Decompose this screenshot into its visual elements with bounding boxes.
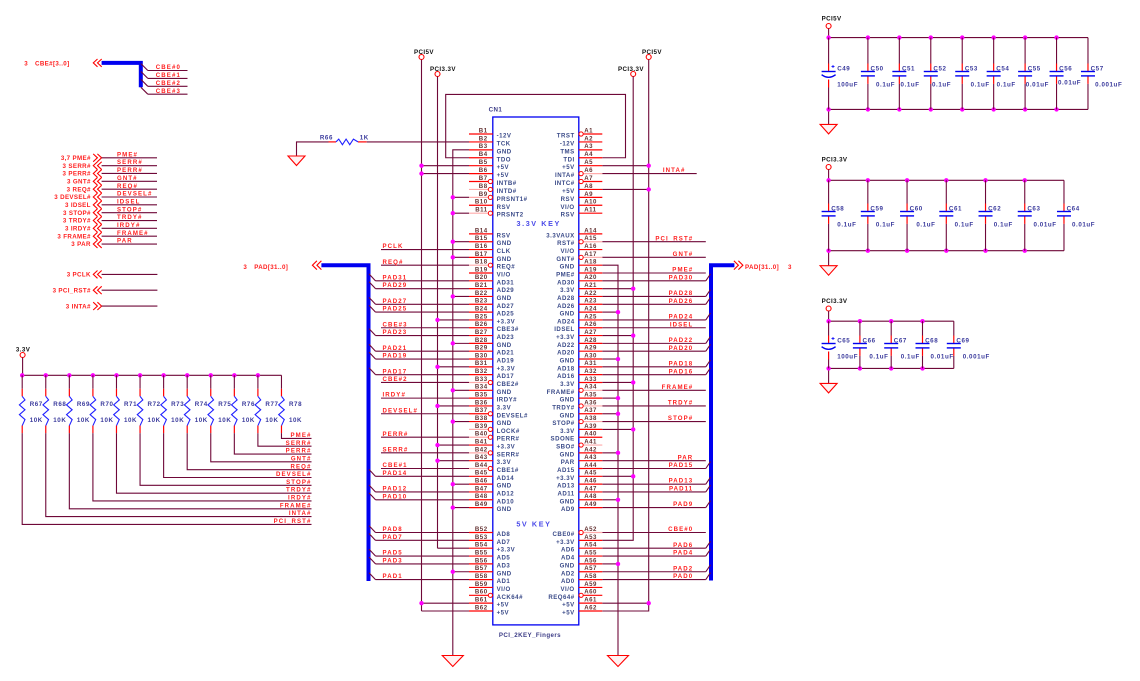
wire PCI_RST# [602, 241, 706, 243]
pin B42 SERR# [469, 446, 520, 458]
svg-text:PAD5: PAD5 [383, 550, 403, 557]
pin B26 CBE3# [469, 321, 519, 333]
svg-text:10K: 10K [242, 417, 255, 424]
svg-text:CBE#3: CBE#3 [156, 88, 181, 95]
pin B17 GND [469, 251, 512, 263]
wire FRAME# [102, 235, 157, 237]
svg-text:A19: A19 [584, 266, 597, 273]
junction A39 3.3V [631, 427, 635, 431]
svg-text:R69: R69 [77, 401, 90, 408]
svg-text:A9: A9 [584, 191, 593, 198]
bus entry PAD2 [706, 565, 711, 572]
svg-text:+3.3V: +3.3V [556, 539, 575, 546]
svg-text:B61: B61 [475, 597, 488, 604]
svg-text:SERR#: SERR# [286, 440, 312, 447]
resistor R74 10K [184, 373, 207, 433]
junction A5 +5V [647, 163, 651, 167]
ground (PCI3.3V bank) [820, 266, 837, 276]
svg-text:A33: A33 [584, 376, 597, 383]
pin B31 +3.3V [469, 360, 516, 372]
junction A48 GND [616, 498, 620, 502]
svg-text:PAD[31..0]: PAD[31..0] [745, 264, 779, 271]
svg-text:100uF: 100uF [837, 354, 858, 361]
pin B57 GND [469, 565, 512, 577]
svg-text:PCLK: PCLK [383, 243, 404, 250]
svg-text:GND: GND [497, 295, 512, 302]
svg-text:TDO: TDO [497, 156, 511, 163]
wire STOP# [602, 421, 706, 423]
svg-text:R68: R68 [53, 401, 66, 408]
svg-text:0.01uF: 0.01uF [1072, 222, 1095, 229]
pin B15 GND [469, 235, 512, 247]
svg-text:PAD21: PAD21 [383, 345, 408, 352]
pin A15 RST# [557, 235, 602, 247]
svg-text:B22: B22 [475, 290, 488, 297]
wire PAD22 [602, 342, 706, 344]
svg-text:VI/O: VI/O [497, 272, 511, 279]
svg-text:AD1: AD1 [497, 578, 511, 585]
pin A36 TRDY# [552, 399, 602, 411]
svg-text:B44: B44 [475, 462, 488, 469]
svg-text:PAD10: PAD10 [383, 493, 408, 500]
wire +5V left rail [421, 60, 423, 611]
svg-text:GND: GND [497, 570, 512, 577]
svg-text:R78: R78 [289, 401, 302, 408]
svg-text:3 INTA#: 3 INTA# [66, 303, 91, 310]
svg-text:SERR#: SERR# [383, 446, 409, 453]
pin B41 +3.3V [469, 438, 516, 450]
svg-text:A44: A44 [584, 462, 597, 469]
svg-text:PAR: PAR [678, 454, 694, 461]
svg-text:PAD25: PAD25 [383, 306, 408, 313]
svg-text:A26: A26 [584, 321, 597, 328]
svg-text:IRDY#: IRDY# [117, 222, 140, 229]
svg-text:PAD24: PAD24 [669, 314, 694, 321]
svg-text:C54: C54 [996, 66, 1009, 73]
ground (bottom right of connector) [608, 656, 629, 667]
pin A45 +3.3V [556, 470, 602, 482]
junction A56 GND [616, 562, 620, 566]
pin B62 +5V [469, 604, 510, 616]
wire PAD7 [376, 539, 470, 541]
svg-text:B14: B14 [475, 227, 488, 234]
svg-text:AD8: AD8 [497, 531, 511, 538]
wire A5 +5V [602, 165, 648, 167]
svg-text:3 FRAME#: 3 FRAME# [57, 233, 91, 240]
capacitor C53 0.1uF [955, 35, 990, 111]
pin B10 RSV [469, 199, 511, 211]
pin B2 TCK [469, 135, 511, 147]
capacitor C56 0.01uF [1050, 35, 1082, 111]
pin A6 INTA# [555, 167, 602, 179]
svg-text:IRDY#: IRDY# [383, 392, 406, 399]
pin B48 AD10 [469, 493, 514, 505]
bus entry PAD19 [369, 352, 376, 359]
wire FRAME# [602, 389, 706, 391]
svg-text:CBE2#: CBE2# [497, 381, 519, 388]
bus entry PAD27 [369, 297, 376, 304]
wire A56 GND [602, 563, 618, 565]
pin B36 3.3V [469, 399, 512, 411]
svg-text:C63: C63 [1027, 206, 1040, 213]
wire PAD17 [376, 374, 470, 376]
svg-text:GND: GND [560, 412, 575, 419]
svg-text:ACK64#: ACK64# [497, 594, 523, 601]
pin B47 AD12 [469, 485, 514, 497]
svg-text:A45: A45 [584, 470, 597, 477]
wire A48 GND [602, 499, 618, 501]
pin B14 RSV [469, 227, 511, 239]
wire REQ# [102, 188, 157, 190]
resistor R72 10K [137, 373, 160, 433]
svg-text:LOCK#: LOCK# [497, 428, 520, 435]
wire A37 GND [602, 413, 618, 415]
svg-text:B7: B7 [479, 175, 488, 182]
svg-text:AD5: AD5 [497, 555, 511, 562]
pin B40 PERR# [469, 431, 520, 443]
svg-text:PAD31: PAD31 [383, 274, 408, 281]
wire PCLK [381, 249, 469, 251]
pin A26 IDSEL [554, 321, 602, 333]
svg-text:3 REQ#: 3 REQ# [67, 186, 91, 193]
svg-text:5V KEY: 5V KEY [516, 520, 551, 529]
svg-text:PCI_RST#: PCI_RST# [274, 518, 312, 525]
pin A58 AD0 [561, 573, 602, 585]
pin A55 AD4 [561, 549, 602, 561]
svg-text:AD11: AD11 [557, 490, 574, 497]
svg-text:CBE1#: CBE1# [497, 467, 519, 474]
svg-text:A25: A25 [584, 313, 597, 320]
svg-text:C64: C64 [1067, 206, 1080, 213]
svg-text:R66: R66 [320, 135, 333, 142]
junction B15 GND [451, 240, 455, 244]
svg-text:GND: GND [497, 240, 512, 247]
bus entry PAD10 [369, 493, 376, 500]
svg-text:GND: GND [560, 264, 575, 271]
wire PCI5V rail top [828, 29, 830, 38]
junction B49 GND [451, 505, 455, 509]
svg-text:0.1uF: 0.1uF [916, 222, 935, 229]
svg-text:C65: C65 [837, 338, 850, 345]
svg-text:C66: C66 [863, 338, 876, 345]
wire A21 3.3V [602, 288, 633, 290]
pin B39 LOCK# [469, 423, 520, 435]
pin A31 AD18 [557, 360, 602, 372]
svg-text:B39: B39 [475, 423, 488, 430]
svg-text:B45: B45 [475, 470, 488, 477]
pin A11 RSV [561, 207, 603, 219]
svg-text:AD14: AD14 [497, 475, 515, 482]
svg-text:3.3V: 3.3V [560, 381, 575, 388]
wire PAD20 [602, 350, 706, 352]
bus entry PAD12 [369, 485, 376, 492]
svg-text:0.1uF: 0.1uF [932, 82, 951, 89]
svg-text:A49: A49 [584, 501, 597, 508]
svg-text:A43: A43 [584, 454, 597, 461]
junction B34 GND [451, 388, 455, 392]
ground (PCI5V bank) [820, 124, 837, 133]
pin A21 3.3V [560, 282, 602, 294]
pin B35 IRDY# [469, 392, 517, 404]
svg-text:C57: C57 [1091, 66, 1104, 73]
svg-text:CBE#1: CBE#1 [156, 72, 181, 79]
bus entry PAD4 [706, 549, 711, 556]
svg-text:GND: GND [560, 311, 575, 318]
capacitor C68 0.01uF [916, 319, 954, 371]
svg-text:B33: B33 [475, 376, 488, 383]
svg-text:B62: B62 [475, 604, 488, 611]
svg-text:REQ#: REQ# [383, 259, 404, 266]
junction A21 3.3V [631, 286, 635, 290]
svg-text:GNT#: GNT# [117, 175, 138, 182]
svg-text:INTC#: INTC# [555, 180, 575, 187]
svg-text:PCI_RST#: PCI_RST# [655, 235, 693, 242]
svg-text:PME#: PME# [556, 272, 575, 279]
svg-text:A32: A32 [584, 368, 597, 375]
capacitor C66 0.1uF [853, 319, 889, 371]
bus entry PAD0 [706, 573, 711, 580]
svg-text:C69: C69 [956, 338, 969, 345]
pin B29 AD21 [469, 345, 514, 357]
svg-text:AD24: AD24 [557, 318, 575, 325]
junction A27 3.3V [631, 333, 635, 337]
capacitor C55 0.01uF [1018, 35, 1049, 111]
pin A14 3.3VAUX [546, 227, 602, 239]
pin A16 VI/O [560, 243, 602, 255]
capacitor C57 0.001uF [1081, 38, 1122, 110]
svg-text:CLK: CLK [497, 248, 511, 255]
pin A42 GND [560, 446, 603, 458]
bus entry CBE#3 [141, 87, 148, 94]
svg-text:PERR#: PERR# [383, 431, 409, 438]
svg-text:B31: B31 [475, 360, 488, 367]
svg-text:PAD8: PAD8 [383, 526, 403, 533]
svg-text:AD12: AD12 [497, 490, 515, 497]
svg-text:10K: 10K [100, 417, 113, 424]
pin B4 TDO [469, 151, 511, 163]
pin B60 ACK64# [469, 589, 523, 601]
svg-text:A6: A6 [584, 167, 593, 174]
wire GND left rail [453, 150, 469, 656]
svg-text:B55: B55 [475, 549, 488, 556]
pin B7 INTB# [469, 175, 517, 187]
svg-text:0.1uF: 0.1uF [955, 222, 974, 229]
svg-text:PRSNT2: PRSNT2 [497, 212, 524, 219]
svg-text:PERR#: PERR# [497, 436, 520, 443]
svg-text:A18: A18 [584, 259, 597, 266]
svg-text:3 PAR: 3 PAR [71, 241, 91, 248]
svg-text:GND: GND [497, 389, 512, 396]
svg-text:B4: B4 [479, 151, 488, 158]
pin B53 AD7 [469, 534, 510, 546]
svg-text:RSV: RSV [561, 212, 575, 219]
pin B5 +5V [469, 159, 510, 171]
wire PAD10 [376, 499, 470, 501]
wire CBE#0 [602, 532, 706, 534]
svg-text:R73: R73 [171, 401, 184, 408]
wire cap bank bottom rail [829, 250, 1064, 252]
capacitor C69 0.001uF [947, 321, 990, 368]
svg-text:3 DEVSEL#: 3 DEVSEL# [54, 194, 91, 201]
junction A24 GND [616, 310, 620, 314]
svg-text:DEVSEL#: DEVSEL# [497, 412, 528, 419]
svg-text:B21: B21 [475, 282, 488, 289]
resistor R75 10K [208, 373, 231, 433]
pin A1 TRST [557, 127, 603, 139]
ground (R66) [288, 156, 305, 166]
wire PME# [102, 157, 157, 159]
svg-text:1K: 1K [360, 135, 369, 142]
svg-text:GND: GND [560, 451, 575, 458]
svg-text:A39: A39 [584, 423, 597, 430]
svg-text:GND: GND [497, 148, 512, 155]
pin B28 GND [469, 337, 512, 349]
svg-text:C60: C60 [910, 206, 923, 213]
svg-text:R74: R74 [195, 401, 208, 408]
svg-text:A60: A60 [584, 589, 597, 596]
junction B11 GND [451, 211, 455, 215]
wire GND right rail [602, 265, 618, 655]
svg-text:AD21: AD21 [497, 350, 515, 357]
svg-text:A8: A8 [584, 183, 593, 190]
svg-text:A3: A3 [584, 143, 593, 150]
svg-text:TRST: TRST [557, 133, 575, 140]
wire REQ# [381, 264, 469, 266]
svg-text:R70: R70 [100, 401, 113, 408]
svg-text:PERR#: PERR# [117, 167, 143, 174]
ground (bottom left of connector) [442, 656, 463, 667]
wire A39 3.3V [602, 428, 633, 430]
svg-text:0.1uF: 0.1uF [869, 354, 888, 361]
junction B38 GND [451, 419, 455, 423]
wire PERR# [102, 172, 157, 174]
svg-text:3.3V KEY: 3.3V KEY [517, 219, 561, 228]
wire SERR# [102, 165, 157, 167]
svg-text:PCI3.3V: PCI3.3V [822, 157, 848, 164]
bus PAD[31..0] (right) [711, 265, 734, 580]
wire TRDY# [102, 220, 157, 222]
capacitor C60 0.1uF [900, 178, 935, 253]
svg-text:10K: 10K [218, 417, 231, 424]
svg-text:0.01uF: 0.01uF [1026, 82, 1049, 89]
pin B9 PRSNT1# [469, 191, 528, 203]
svg-text:PAD7: PAD7 [383, 534, 403, 541]
svg-text:PAD30: PAD30 [669, 274, 694, 281]
svg-text:AD13: AD13 [557, 483, 575, 490]
svg-text:C59: C59 [870, 206, 883, 213]
bus entry PAD15 [706, 462, 711, 469]
junction B43 3.3V [435, 458, 439, 462]
svg-text:CBE3#: CBE3# [497, 326, 519, 333]
svg-text:C50: C50 [871, 66, 884, 73]
svg-text:A41: A41 [584, 438, 597, 445]
svg-text:A1: A1 [584, 127, 593, 134]
svg-text:CBE#0: CBE#0 [668, 526, 693, 533]
wire B5 +5V [422, 165, 470, 167]
svg-text:A42: A42 [584, 446, 597, 453]
pin B20 AD31 [469, 274, 514, 286]
wire B17 GND [453, 256, 469, 258]
pin A22 AD28 [557, 290, 602, 302]
svg-text:AD25: AD25 [497, 311, 515, 318]
svg-text:PAD14: PAD14 [383, 470, 408, 477]
svg-text:B25: B25 [475, 313, 488, 320]
capacitor C65 100uF [822, 319, 858, 371]
svg-text:PAD19: PAD19 [383, 353, 408, 360]
svg-text:B15: B15 [475, 235, 488, 242]
svg-text:STOP#: STOP# [286, 479, 311, 486]
pin A9 RSV [561, 191, 603, 203]
wire A35 GND [602, 397, 618, 399]
bus entry PAD8 [369, 526, 376, 533]
bus entry PAD26 [706, 297, 711, 304]
svg-text:B29: B29 [475, 345, 488, 352]
svg-text:B49: B49 [475, 501, 488, 508]
wire PAD3 [376, 563, 470, 565]
wire R72 to STOP# [140, 433, 311, 485]
svg-text:REQ#: REQ# [117, 183, 138, 190]
svg-text:PAD1: PAD1 [383, 573, 403, 580]
wire B31 3.3V [438, 366, 470, 368]
svg-text:C55: C55 [1028, 66, 1041, 73]
svg-text:10K: 10K [195, 417, 208, 424]
svg-text:B56: B56 [475, 557, 488, 564]
wire R68 to INTA# [46, 433, 312, 516]
svg-text:PERR#: PERR# [286, 448, 312, 455]
wire R66 to ground [297, 142, 329, 156]
junction B17 GND [451, 255, 455, 259]
svg-text:PAD16: PAD16 [669, 368, 694, 375]
pin B1 -12V [469, 127, 512, 139]
svg-text:B28: B28 [475, 337, 488, 344]
svg-text:AD23: AD23 [497, 334, 515, 341]
svg-text:CBE#3: CBE#3 [383, 321, 408, 328]
svg-text:A2: A2 [584, 135, 593, 142]
junction B57 GND [451, 570, 455, 574]
svg-text:R76: R76 [242, 401, 255, 408]
resistor R66 [329, 141, 337, 143]
wire CBE#3 [148, 93, 188, 95]
wire to ground (cap bank) [828, 368, 830, 383]
wire PAD26 [602, 303, 706, 305]
wire PAD31 [376, 280, 470, 282]
bus entry PAD7 [369, 533, 376, 540]
svg-text:GND: GND [497, 342, 512, 349]
svg-text:3 IDSEL: 3 IDSEL [65, 202, 91, 209]
wire PAD4 [602, 555, 706, 557]
pin B3 GND [469, 143, 512, 155]
svg-text:PCI5V: PCI5V [822, 16, 842, 23]
pin A8 +5V [562, 183, 602, 195]
svg-text:C49: C49 [837, 66, 850, 73]
bus entry PAD24 [706, 313, 711, 320]
pin B19 VI/O [469, 266, 511, 278]
svg-text:PAD13: PAD13 [669, 478, 694, 485]
wire PAD23 [376, 335, 470, 337]
svg-text:3 STOP#: 3 STOP# [63, 210, 91, 217]
svg-text:VI/O: VI/O [560, 204, 574, 211]
wire R73 to DEVSEL# [164, 433, 312, 477]
wire A42 GND [602, 452, 618, 454]
svg-text:0.1uF: 0.1uF [997, 82, 1016, 89]
svg-text:GND: GND [560, 397, 575, 404]
svg-text:A37: A37 [584, 407, 597, 414]
wire B46 GND [453, 483, 469, 485]
svg-text:GND: GND [497, 483, 512, 490]
svg-text:A23: A23 [584, 298, 597, 305]
wire IDSEL [602, 327, 706, 329]
svg-text:REQ#: REQ# [291, 463, 312, 470]
